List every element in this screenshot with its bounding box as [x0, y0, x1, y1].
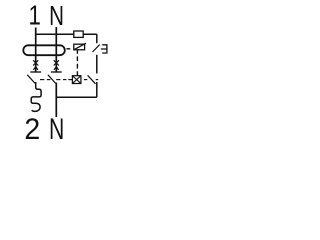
wire: CT to trip relay (dash): [66, 48, 70, 50]
switch blade: auxiliary contact: [88, 75, 96, 84]
wire: pole N lower: [55, 83, 57, 117]
trip mechanism linkage box: [72, 76, 81, 84]
breaker contact pole N: X: [54, 60, 59, 65]
terminal label 1: [29, 0, 41, 31]
terminal label N (bottom): [49, 114, 64, 146]
wire: test circuit bottom return: [56, 96, 97, 98]
wire: pole 1 vertical: [35, 28, 37, 73]
breaker contact pole 1: bar: [30, 71, 41, 73]
wire: relay to trip mechanism stub: [76, 50, 78, 54]
breaker contact pole 1: blade: [27, 75, 35, 84]
wire: test branch middle: [96, 55, 98, 74]
svg-text:N: N: [49, 114, 64, 146]
wire: test circuit top: [36, 33, 97, 35]
current transformer toroid: [23, 45, 65, 55]
breaker contact pole 1: X: [33, 60, 38, 65]
wire: test branch lower: [96, 82, 98, 97]
wire: relay trip dashed vertical: [76, 56, 78, 75]
breaker contact pole N: arrow: [54, 67, 59, 70]
switch blade: test button contact: [93, 45, 100, 52]
resistor R (test): [74, 31, 83, 37]
wire: pole N vertical: [55, 27, 57, 72]
terminal label 2: [24, 114, 40, 146]
mechanical linkage dashes: [40, 79, 44, 81]
breaker contact pole N: blade: [48, 75, 56, 84]
thermal overload element: [31, 82, 41, 111]
breaker contact pole 1: arrow: [33, 67, 38, 70]
terminal label N (top): [49, 1, 64, 32]
wire: test branch upper: [96, 34, 98, 43]
breaker contact pole N: bar: [51, 71, 62, 73]
svg-text:2: 2: [24, 114, 40, 146]
svg-text:1: 1: [29, 0, 41, 31]
trip relay U1: [74, 44, 85, 50]
push-button actuator: [101, 45, 107, 53]
